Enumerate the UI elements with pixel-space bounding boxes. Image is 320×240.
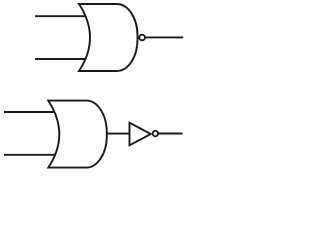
wire input A of OR gate U2 [4, 111, 61, 113]
inverter U3 triangle body [130, 123, 151, 146]
wire input A of NOR gate U1 [35, 15, 92, 17]
wire output of inverter U3 [155, 133, 183, 135]
NOR gate U1 output inversion bubble [139, 35, 145, 41]
wire node between OR gate U2 output and inverter U3 input [100, 133, 131, 135]
NOR gate U1 body [79, 4, 138, 71]
wire input B of OR gate U2 [4, 154, 61, 156]
inverter U3 output inversion bubble [153, 131, 158, 136]
wire output of NOR gate U1 [142, 36, 183, 38]
OR gate U2 body [48, 101, 107, 168]
wire input B of NOR gate U1 [35, 58, 92, 60]
